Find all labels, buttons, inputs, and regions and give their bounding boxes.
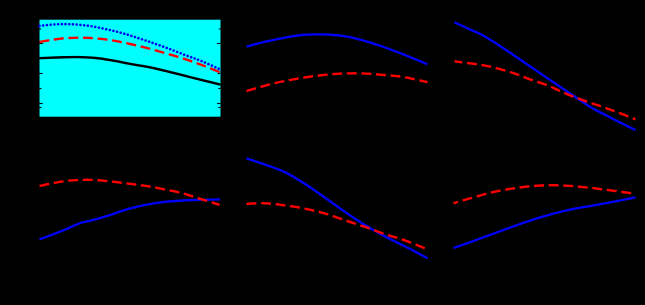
bottom-right subplot: blue solid curve: [454, 197, 636, 248]
top-middle subplot: red dashed curve: [247, 73, 428, 91]
top-left subplot: y-axis tick marks on left spine: [40, 29, 43, 108]
bottom-left subplot: red dashed curve: [40, 180, 220, 205]
bottom-left subplot: blue solid curve: [40, 199, 221, 239]
top-left subplot: red dashed curve: [40, 38, 221, 73]
top-right subplot: blue solid curve: [455, 22, 636, 130]
top-middle subplot: blue solid curve: [247, 34, 428, 64]
top-left subplot: black solid curve: [40, 57, 221, 85]
top-left subplot: blue dotted curve: [40, 24, 221, 69]
bottom-middle subplot: blue solid curve: [247, 158, 428, 258]
top-left subplot: cyan axes background: [40, 20, 221, 117]
bottom-middle subplot: red dashed curve: [247, 203, 428, 249]
top-right subplot: red dashed curve: [455, 61, 636, 119]
top-left subplot: y-axis tick marks on right spine: [217, 29, 220, 108]
bottom-right subplot: red dashed curve: [454, 185, 636, 203]
